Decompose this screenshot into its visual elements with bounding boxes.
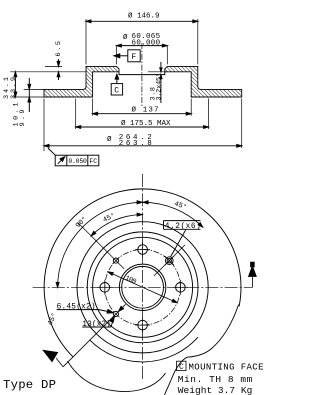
dim 6.5 plate thickness [10,41,86,80]
svg-text:FC: FC [89,158,97,165]
disc outer edge circle [44,189,241,357]
svg-text:Min. TH 8 mm: Min. TH 8 mm [178,374,253,385]
bottom break wavy lines and cutaway [165,305,239,395]
dim 3.8 / chamfer 3.2x45 [148,62,167,103]
svg-text:Weight 3.7 Kg: Weight 3.7 Kg [178,385,253,395]
label C MOUNTING FACE [177,361,186,370]
svg-text:Ø 137: Ø 137 [132,106,159,115]
section line arrow at screw hole [119,306,124,311]
svg-text:Ø: Ø [123,33,128,42]
angle dim arc 45deg (N to NE hole) [143,202,203,227]
svg-text:60.000: 60.000 [132,40,161,48]
screw hole 6.45 at 135deg [113,258,118,263]
bolt circle dim 100 [108,272,177,303]
hat outer circle [87,232,198,343]
section view direction arrow E [249,262,257,287]
svg-text:C: C [179,363,184,372]
screw hole 6.45 at 225deg [113,311,118,316]
hat inner circle [93,237,193,337]
svg-text:MOUNTING FACE: MOUNTING FACE [189,363,264,373]
svg-text:F: F [131,53,136,62]
svg-text:4.2(x6): 4.2(x6) [165,223,201,231]
radial line 45deg through 4.2 hole [154,245,185,276]
svg-text:Type DP: Type DP [3,378,56,392]
centre bore circle [122,266,164,308]
angle dim arc 90deg (W to N) [58,202,143,287]
svg-text:0.050: 0.050 [68,158,87,165]
datum F [114,50,140,62]
dim dia 264.2/263.8 [44,99,242,152]
dim dia 175.5 MAX [76,99,209,130]
bolt hole E [176,283,186,293]
section cutting line 225deg with arrow [43,304,125,367]
svg-text:6.45(x2): 6.45(x2) [57,304,96,312]
radial line 135deg through screw hole [78,222,125,269]
angle dim arc 45deg (NW hole to N) [91,215,142,236]
bolt hole W [100,283,110,293]
dim 34.1/33.9 overall thickness [3,72,44,99]
disc section right half [165,66,242,97]
feature control frame: runout 0.050 FC [48,148,99,166]
dim dia 146.9 [86,12,198,65]
label 13(x2) with leader [82,316,114,329]
svg-text:Ø 175.5 MAX: Ø 175.5 MAX [121,119,171,128]
disc section left half (band + hat wall + plate) [44,66,119,97]
svg-text:Ø: Ø [107,135,112,144]
front view centerlines [142,174,144,381]
bolt circle (dash-dot) [105,249,181,325]
svg-text:9.9: 9.9 [19,110,27,127]
label 4.2(x6) with leader [164,221,201,257]
dim dia 60.065/60.000 [117,33,168,65]
label 6.45(x2) with leader [57,304,114,313]
section centerline [141,43,143,106]
pilot step under bore [119,72,165,75]
hole 4.2(x6) symbol at 45deg [167,258,171,262]
bore chamfer circle [119,264,165,310]
svg-text:33.9: 33.9 [10,77,18,99]
bolt hole N [138,245,148,255]
svg-text:6.5: 6.5 [55,41,63,57]
svg-text:13(x2): 13(x2) [82,321,111,329]
datum C mounting face [111,74,122,95]
svg-text:C: C [114,86,119,95]
bolt hole S [138,320,148,330]
svg-text:3.2x45°: 3.2x45° [154,73,163,101]
friction inner circle [77,222,208,353]
svg-text:Ø 146.9: Ø 146.9 [128,12,160,21]
dim dia 137 [93,99,192,116]
dim 10.1/9.9 disc thickness [13,78,44,127]
